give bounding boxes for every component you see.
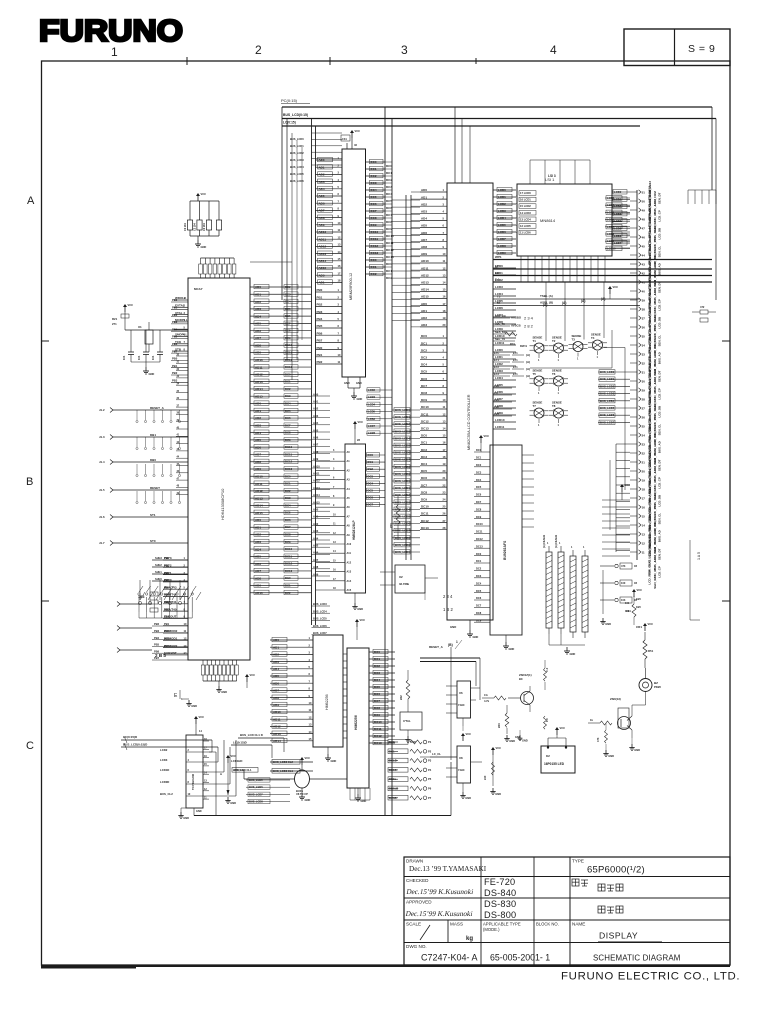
svg-text:DC4: DC4 — [285, 503, 291, 507]
svg-text:HM628128LP: HM628128LP — [352, 519, 356, 540]
svg-text:DC6: DC6 — [285, 518, 291, 522]
svg-text:DC11: DC11 — [371, 237, 379, 241]
svg-text:DC12: DC12 — [374, 734, 382, 738]
svg-text:AD1: AD1 — [421, 309, 427, 313]
svg-text:DWG NO.: DWG NO. — [406, 944, 427, 949]
right top small resistors — [700, 310, 708, 314]
connector J1 pins with numbers — [630, 190, 645, 555]
svg-text:BUS_LCD(0:15)D: BUS_LCD(0:15)D — [123, 743, 148, 747]
svg-text:473: 473 — [621, 564, 626, 568]
vcc near J1 — [620, 483, 630, 492]
svg-text:ET1: ET1 — [513, 373, 518, 376]
rows below U6 extra labels — [246, 778, 290, 804]
svg-text:LCD5: LCD5 — [607, 210, 615, 214]
labels CPU left outer field — [164, 556, 170, 648]
central label rows between rails upper — [312, 133, 343, 165]
svg-text:AD9: AD9 — [313, 457, 319, 461]
svg-text:AD4: AD4 — [421, 217, 427, 221]
IC U3 top pin VCC — [350, 129, 360, 138]
svg-text:DC5: DC5 — [374, 685, 380, 689]
svg-text:DC10: DC10 — [285, 547, 293, 551]
svg-text:SEN_DT: SEN_DT — [658, 370, 662, 382]
svg-text:SJE0: SJE0 — [155, 577, 162, 581]
svg-text:LCD8: LCD8 — [607, 232, 615, 236]
wires IC U3 right pins data — [366, 159, 386, 276]
wire bus left drop — [281, 107, 283, 300]
svg-text:AD0: AD0 — [319, 273, 325, 277]
svg-text:11: 11 — [642, 550, 645, 554]
svg-text:LCD5: LCD5 — [368, 410, 376, 414]
svg-text:DC12: DC12 — [371, 244, 379, 248]
svg-text:LC_CL: LC_CL — [432, 752, 441, 756]
svg-text:HM62256: HM62256 — [325, 694, 329, 710]
left small pullups row — [138, 580, 181, 605]
svg-text:HD6413308CP10: HD6413308CP10 — [220, 488, 225, 520]
svg-text:BUS_LCD2 CL2: BUS_LCD2 CL2 — [273, 760, 294, 764]
svg-text:APPROVED: APPROVED — [406, 900, 432, 905]
svg-text:T7: T7 — [533, 404, 537, 408]
vertical drops U12 top — [530, 160, 590, 184]
svg-text:(A): (A) — [526, 374, 530, 378]
svg-text:AD3: AD3 — [319, 180, 325, 184]
svg-text:R19: R19 — [510, 342, 515, 346]
svg-text:CA: CA — [484, 693, 488, 697]
svg-text:DC8: DC8 — [421, 490, 427, 494]
svg-text:(A): (A) — [526, 353, 530, 357]
svg-text:AD8: AD8 — [421, 245, 427, 249]
svg-text:DC0: DC0 — [389, 740, 395, 744]
svg-text:(A) FILM-R: (A) FILM-R — [542, 535, 546, 548]
texture rows right of CPU bottom — [312, 602, 331, 635]
svg-text:AD11: AD11 — [313, 472, 320, 476]
svg-text:44: 44 — [642, 253, 646, 257]
svg-text:X'TAL: X'TAL — [403, 719, 411, 723]
svg-text:271: 271 — [112, 322, 117, 326]
svg-text:BUS_LCD0: BUS_LCD0 — [600, 370, 615, 374]
svg-text:GND: GND — [465, 796, 471, 800]
svg-text:A: A — [27, 195, 35, 207]
svg-text:DC12: DC12 — [476, 537, 483, 541]
svg-text:AD5: AD5 — [255, 322, 261, 326]
wires IC U11 right pins lower — [493, 264, 516, 429]
svg-text:PB0: PB0 — [317, 346, 323, 350]
svg-text:AD12: AD12 — [319, 245, 327, 249]
svg-text:DC3: DC3 — [368, 474, 374, 478]
svg-text:47: 47 — [642, 226, 646, 230]
svg-text:PB1: PB1 — [317, 353, 323, 357]
svg-text:PB0: PB0 — [172, 298, 178, 302]
svg-text:LCD_DB: LCD_DB — [658, 228, 662, 240]
svg-text:BUS_LCD8: BUS_LCD8 — [395, 536, 410, 540]
svg-text:P5: P5 — [428, 777, 432, 781]
svg-text:LCD4: LCD4 — [368, 402, 376, 406]
svg-text:T3: T3 — [572, 337, 576, 341]
wires IC U2 left long inputs — [99, 406, 188, 546]
svg-text:LC(0:15): LC(0:15) — [283, 121, 296, 125]
svg-text:LCD3: LCD3 — [368, 395, 376, 399]
left lower wire rows to CPU — [152, 622, 188, 660]
svg-text:DC4: DC4 — [285, 300, 291, 304]
svg-text:AD8: AD8 — [255, 576, 261, 580]
svg-text:SJE2: SJE2 — [155, 563, 162, 567]
svg-text:LCD_DB: LCD_DB — [658, 495, 662, 507]
svg-text:SEN_DT3: SEN_DT3 — [653, 574, 657, 588]
svg-text:RESET: RESET — [150, 486, 160, 490]
svg-text:2: 2 — [255, 43, 262, 57]
svg-text:B: B — [26, 476, 33, 488]
svg-text:AD8: AD8 — [319, 216, 325, 220]
svg-text:GND: GND — [509, 739, 515, 743]
svg-text:LCD1HD: LCD1HD — [231, 759, 242, 763]
svg-text:BUS_LCD7: BUS_LCD7 — [313, 631, 327, 635]
bus wire right 2 — [493, 268, 712, 270]
border bottom thick line — [41, 965, 730, 967]
wires U7 bottom field — [350, 788, 370, 800]
svg-text:AD3: AD3 — [313, 529, 319, 533]
svg-text:38: 38 — [642, 307, 646, 311]
wires IC U11 top drops — [454, 107, 456, 183]
wire RA1 to vcc rail — [250, 261, 292, 263]
svg-text:GND: GND — [608, 754, 614, 758]
svg-text:BUS_AD: BUS_AD — [658, 352, 662, 364]
wires IC U6 left pins boxed — [270, 636, 313, 743]
svg-text:A14: A14 — [347, 580, 352, 583]
svg-text:AD15: AD15 — [421, 295, 429, 299]
svg-text:DC1: DC1 — [421, 341, 427, 345]
svg-text:C0: C0 — [494, 391, 498, 395]
IC U7 body mid-right — [347, 648, 369, 788]
svg-text:4: 4 — [550, 43, 557, 57]
svg-text:C#1: C#1 — [494, 398, 499, 402]
svg-text:AD15: AD15 — [255, 394, 263, 398]
svg-text:1B: 1B — [634, 582, 637, 585]
svg-text:DC9: DC9 — [386, 227, 392, 231]
svg-text:PB3: PB3 — [164, 637, 170, 641]
svg-text:DC0: DC0 — [476, 552, 482, 556]
svg-text:LCD8: LCD8 — [498, 244, 506, 248]
svg-text:VCC: VCC — [484, 434, 490, 438]
svg-text:17: 17 — [642, 496, 646, 500]
svg-text:DCLD: DCLD — [389, 759, 397, 763]
svg-text:AD9: AD9 — [273, 703, 279, 707]
svg-text:SJE1: SJE1 — [155, 570, 162, 574]
svg-text:DC0: DC0 — [421, 434, 427, 438]
IC U10 body bottom-left — [186, 735, 203, 808]
transformer T3 — [569, 334, 588, 361]
wire sense row2 link — [530, 367, 612, 369]
svg-text:MCA7: MCA7 — [194, 287, 203, 291]
svg-text:14: 14 — [642, 523, 646, 527]
svg-text:PB5: PB5 — [154, 643, 160, 647]
svg-text:R21: R21 — [112, 317, 118, 321]
svg-text:DB0: DB0 — [150, 458, 156, 462]
svg-text:DC2: DC2 — [476, 463, 482, 467]
svg-text:DC11: DC11 — [374, 727, 382, 731]
svg-text:LCD_FRM: LCD_FRM — [648, 569, 652, 584]
resistor R223 q area — [505, 713, 509, 727]
IC U15 body — [490, 445, 522, 635]
svg-text:MASS: MASS — [450, 922, 463, 927]
svg-text:LCD_CP: LCD_CP — [658, 477, 662, 489]
wires between U6 U7 — [343, 654, 347, 738]
svg-text:AD4: AD4 — [255, 547, 261, 551]
svg-text:AD0: AD0 — [255, 285, 261, 289]
vcc right of RA2 — [245, 673, 255, 682]
svg-text:BUS_LCD7: BUS_LCD7 — [395, 458, 410, 462]
svg-text:LCD7: LCD7 — [607, 225, 615, 229]
svg-text:FURUNO ELECTRIC CO., LTD.: FURUNO ELECTRIC CO., LTD. — [561, 971, 740, 983]
svg-text:AD3: AD3 — [255, 424, 261, 428]
svg-text:AD7: AD7 — [313, 443, 319, 447]
svg-text:PB3: PB3 — [317, 310, 323, 314]
svg-text:BUS_LCD1: BUS_LCD1 — [395, 415, 410, 419]
svg-text:GND: GND — [201, 245, 207, 249]
svg-text:AD12: AD12 — [313, 479, 320, 483]
IC U15 bottom gnd — [505, 635, 507, 642]
svg-text:DC8: DC8 — [421, 391, 427, 395]
svg-text:PB6: PB6 — [172, 342, 178, 346]
svg-text:BUS_LCD4: BUS_LCD4 — [600, 399, 615, 403]
svg-text:AD9: AD9 — [319, 223, 325, 227]
left jumper tick field — [136, 410, 181, 504]
svg-text:ET1: ET1 — [513, 359, 518, 362]
svg-text:AD0: AD0 — [313, 508, 319, 512]
svg-text:PKB5: PKB5 — [654, 685, 661, 689]
svg-text:DC10: DC10 — [421, 505, 429, 509]
svg-text:C: C — [26, 740, 34, 752]
svg-text:GND: GND — [570, 652, 576, 656]
svg-text:AD4: AD4 — [313, 421, 319, 425]
svg-text:AUSBO: AUSBO — [511, 316, 522, 320]
svg-text:AD0: AD0 — [421, 188, 427, 192]
svg-text:PB1: PB1 — [164, 622, 170, 626]
svg-text:11 LCD6: 11 LCD6 — [520, 231, 531, 235]
svg-text:DC7: DC7 — [285, 525, 291, 529]
svg-text:GND: GND — [196, 810, 202, 813]
svg-text:AD12: AD12 — [421, 273, 429, 277]
svg-text:AD13: AD13 — [255, 380, 263, 384]
svg-text:BUS_LCD2: BUS_LCD2 — [395, 493, 410, 497]
vcc right mid — [491, 746, 501, 755]
wires C rows lower — [493, 384, 512, 416]
svg-text:104: 104 — [122, 355, 126, 360]
svg-text:12: 12 — [642, 541, 646, 545]
svg-text:PB3: PB3 — [164, 578, 170, 582]
svg-text:ETC: ETC — [494, 351, 499, 355]
vcc mid bottom — [226, 754, 236, 763]
svg-text:LCD_CP: LCD_CP — [658, 299, 662, 311]
svg-text:VCC: VCC — [360, 618, 366, 622]
svg-text:AD2: AD2 — [313, 522, 319, 526]
svg-text:DC6: DC6 — [476, 493, 482, 497]
svg-text:AD10: AD10 — [421, 259, 429, 263]
vcc buzzer — [643, 622, 653, 631]
IC U3 right data labels outer — [386, 164, 394, 280]
svg-text:DS-800: DS-800 — [484, 910, 516, 920]
svg-text:A15: A15 — [347, 589, 352, 592]
svg-text:AD5: AD5 — [421, 224, 427, 228]
svg-text:DC1: DC1 — [285, 482, 291, 486]
drawing border frame — [42, 61, 731, 965]
svg-text:GND: GND — [450, 625, 456, 629]
svg-text:X1: X1 — [138, 325, 142, 329]
svg-text:BUS_LCD8: BUS_LCD8 — [249, 800, 263, 804]
IC U18 flipflop body — [457, 746, 471, 783]
transformer T7 — [530, 401, 549, 428]
svg-text:AD6: AD6 — [273, 681, 279, 685]
svg-text:DC13: DC13 — [421, 526, 429, 530]
wires left heading rows — [152, 556, 188, 581]
svg-text:BUS_LCD5: BUS_LCD5 — [395, 444, 410, 448]
svg-text:AD6: AD6 — [313, 436, 319, 440]
svg-text:VCC: VCC — [637, 588, 643, 592]
svg-text:BUS_LCD4: BUS_LCD4 — [313, 609, 327, 613]
svg-text:LCD3: LCD3 — [495, 285, 503, 289]
transformer T6 — [549, 369, 568, 396]
svg-text:AD10: AD10 — [255, 358, 263, 362]
svg-text:AD1: AD1 — [255, 409, 261, 413]
svg-text:DC9: DC9 — [285, 438, 291, 442]
svg-text:DC0: DC0 — [371, 258, 377, 262]
svg-text:U6: U6 — [459, 691, 463, 695]
svg-text:2SD1Z(1): 2SD1Z(1) — [519, 673, 532, 677]
svg-text:2 3 4: 2 3 4 — [443, 594, 453, 599]
IC U11 gnd bottom — [469, 620, 471, 630]
svg-text:AD6: AD6 — [313, 551, 319, 555]
svg-text:DC13: DC13 — [374, 741, 382, 745]
svg-text:LCD_CP: LCD_CP — [658, 388, 662, 400]
svg-text:AD5: AD5 — [273, 674, 279, 678]
svg-text:AD14: AD14 — [319, 259, 327, 263]
reset circuit label — [424, 592, 426, 600]
wire LC bus label left — [121, 739, 212, 741]
svg-text:AD8: AD8 — [273, 696, 279, 700]
svg-text:AD0: AD0 — [255, 518, 261, 522]
svg-text:BUS_LCD6: BUS_LCD6 — [313, 624, 327, 628]
svg-text:DC7: DC7 — [374, 699, 380, 703]
crystal X1 left of CPU — [145, 330, 153, 344]
svg-text:AD9: AD9 — [313, 572, 319, 576]
svg-text:VCC: VCC — [358, 420, 364, 424]
svg-text:21: 21 — [642, 460, 646, 464]
svg-text:DC13: DC13 — [476, 544, 483, 548]
svg-text:BUS_LCD5: BUS_LCD5 — [600, 406, 615, 410]
svg-text:LCD2: LCD2 — [368, 388, 376, 392]
svg-text:GND: GND — [305, 798, 311, 802]
svg-text:DC5: DC5 — [386, 199, 392, 203]
svg-text:LCD6: LCD6 — [498, 230, 506, 234]
svg-text:P1: P1 — [428, 740, 432, 744]
svg-text:SJE3: SJE3 — [155, 556, 162, 560]
svg-text:AD2: AD2 — [313, 407, 319, 411]
svg-text:J1-6: J1-6 — [99, 515, 105, 519]
resistor R223 vertical mid — [396, 505, 400, 524]
svg-text:DC3: DC3 — [421, 455, 427, 459]
terminal arrows left lower — [117, 602, 152, 653]
svg-text:DC2: DC2 — [386, 276, 392, 280]
resistor R21 left — [123, 303, 133, 312]
svg-text:BUS_LCD7: BUS_LCD7 — [600, 420, 615, 424]
svg-text:DC12: DC12 — [386, 248, 394, 252]
svg-text:AD8: AD8 — [255, 343, 261, 347]
svg-text:(A) FILM-R: (A) FILM-R — [554, 535, 558, 548]
right ruler tick B-C — [722, 600, 730, 602]
svg-text:DC5: DC5 — [421, 469, 427, 473]
small caps area right of U12 — [688, 190, 716, 204]
svg-text:DC13: DC13 — [285, 569, 293, 573]
svg-text:AD7: AD7 — [255, 336, 261, 340]
far right mid wires — [689, 540, 691, 620]
top ruler tick 2-3 — [329, 57, 331, 65]
svg-text:GND: GND — [361, 799, 367, 803]
svg-text:C31: C31 — [342, 137, 347, 141]
svg-text:DC7: DC7 — [285, 321, 291, 325]
svg-text:GND: GND — [357, 397, 363, 401]
wires bus to connector rows mid — [612, 232, 630, 248]
wire loop left of U17 — [420, 657, 480, 659]
svg-text:Dec.15’99 K.Kusunoki: Dec.15’99 K.Kusunoki — [406, 888, 475, 896]
svg-text:DC1: DC1 — [386, 171, 392, 175]
svg-text:VCC: VCC — [560, 726, 566, 730]
svg-text:D-1: D-1 — [495, 278, 500, 282]
svg-text:LSI 3: LSI 3 — [548, 174, 556, 178]
svg-text:PB5: PB5 — [172, 335, 178, 339]
svg-text:GND: GND — [183, 816, 189, 820]
svg-text:AD13: AD13 — [319, 252, 327, 256]
svg-text:AD1: AD1 — [255, 525, 261, 529]
svg-text:DC11: DC11 — [285, 452, 292, 456]
svg-text:1: 1 — [456, 640, 458, 644]
svg-text:RESET_A: RESET_A — [150, 406, 165, 410]
svg-text:LCD10: LCD10 — [607, 246, 616, 250]
svg-text:(MODE.): (MODE.) — [483, 927, 500, 932]
svg-text:BUS_LCD6: BUS_LCD6 — [249, 785, 263, 789]
svg-text:37: 37 — [642, 316, 646, 320]
svg-text:HM62256: HM62256 — [354, 715, 358, 730]
connector J1 rotated signal names — [648, 181, 652, 556]
gnd below vcc wire — [490, 788, 501, 796]
svg-text:23: 23 — [642, 442, 646, 446]
svg-text:C7247-K04- A: C7247-K04- A — [421, 953, 478, 963]
circuit kanji kairozu — [598, 906, 605, 913]
wires below U6 labels — [270, 761, 313, 763]
svg-text:RESET_A: RESET_A — [429, 645, 444, 649]
svg-text:AD13: AD13 — [273, 732, 281, 736]
svg-text:AD12: AD12 — [255, 489, 263, 493]
wires U12 left to U11 right — [516, 196, 517, 233]
svg-text:24: 24 — [642, 433, 646, 437]
resistor network RN1 — [546, 542, 552, 634]
gnd Q2 area — [605, 744, 607, 750]
resistor R224 vertical mid lower — [406, 680, 410, 699]
svg-text:AD9: AD9 — [255, 467, 261, 471]
svg-text:DC3: DC3 — [371, 181, 377, 185]
svg-text:J1-4: J1-4 — [99, 460, 105, 464]
svg-text:GND: GND — [230, 801, 236, 805]
svg-text:LCD0: LCD0 — [498, 188, 506, 192]
rail drop J1 side — [615, 444, 617, 552]
svg-text:PB3: PB3 — [154, 629, 160, 633]
wires U16 — [380, 571, 395, 573]
svg-text:DC8: DC8 — [285, 431, 291, 435]
resistor squiggle C0 upper — [544, 668, 547, 681]
svg-text:45: 45 — [642, 244, 646, 248]
svg-text:220: 220 — [483, 775, 487, 780]
svg-text:DC5: DC5 — [421, 370, 427, 374]
resistor network RA1 above CPU — [199, 258, 236, 278]
svg-text:FE-720: FE-720 — [484, 877, 515, 887]
vcc above U10 — [194, 715, 204, 724]
